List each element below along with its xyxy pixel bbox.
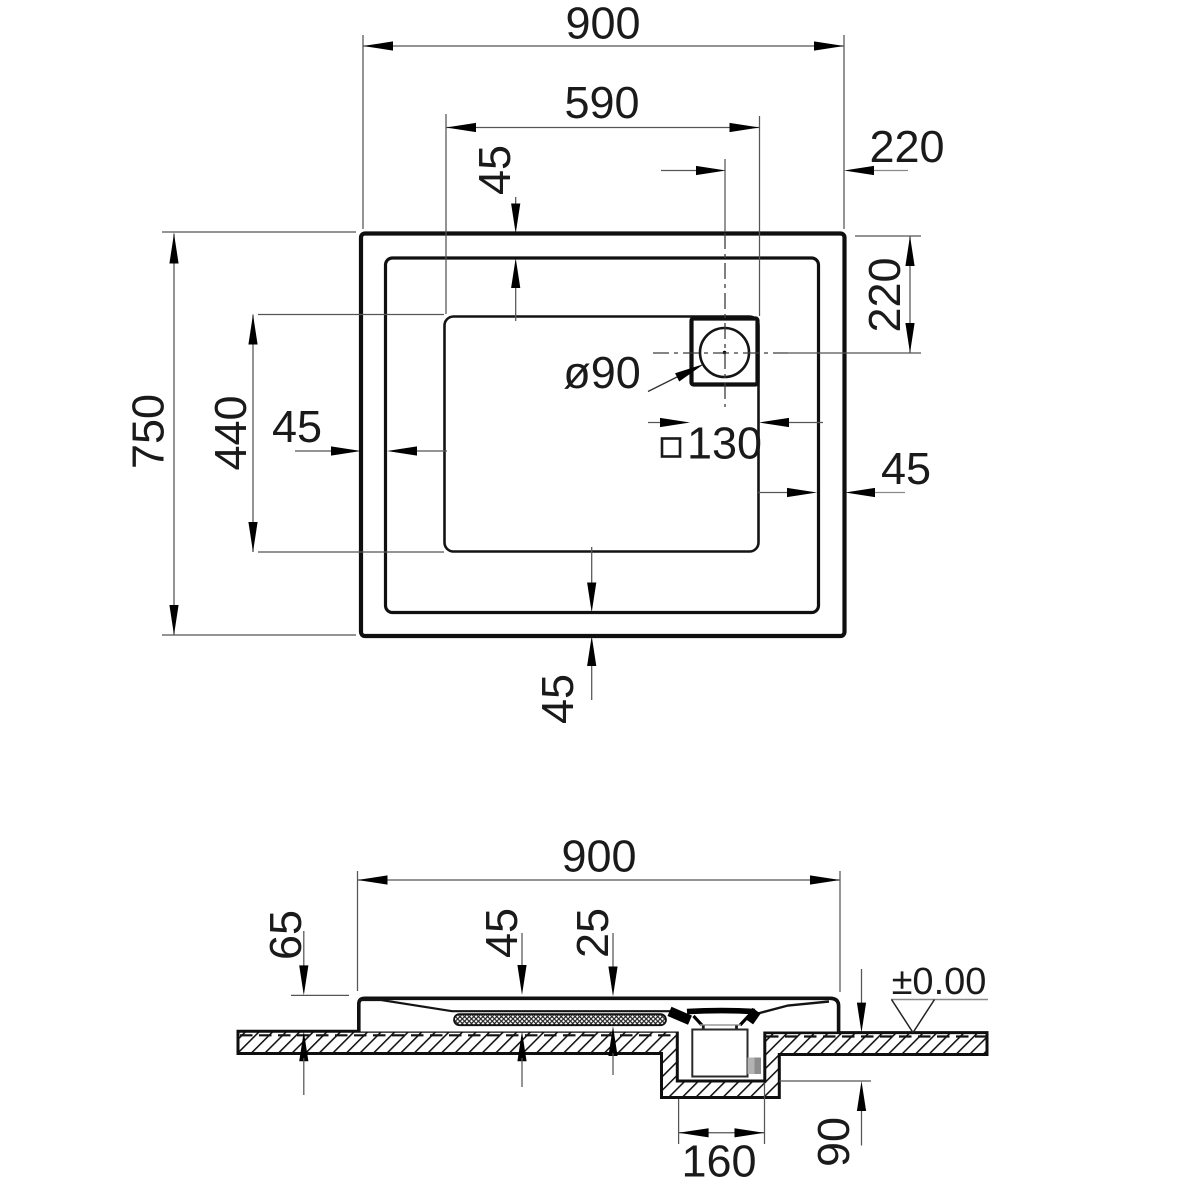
drain horizontal centerline: [653, 352, 788, 354]
svg-text:45: 45: [469, 145, 520, 195]
dim 45 (bottom rim) shaft and arrows: [591, 547, 593, 584]
anti-slip textured strip: [454, 1014, 666, 1025]
concrete floor and recess pit (hatched): [238, 1031, 987, 1097]
svg-text:90: 90: [808, 1117, 859, 1167]
second (rim inner) rectangle: [386, 258, 819, 613]
strainer stub left: [702, 1026, 705, 1032]
outer tray rectangle (plan): [361, 234, 845, 637]
svg-text:160: 160: [681, 1136, 756, 1187]
dim 45 (section) shaft and arrows: [521, 933, 523, 966]
dim 45 (top rim) shaft and arrows: [515, 197, 517, 206]
dim 590 dimension line: [446, 127, 760, 129]
svg-text:130: 130: [687, 418, 762, 469]
floor screed dashed line (left slab): [240, 1034, 676, 1036]
dim 440 extension lines: [258, 314, 444, 316]
tray outline (section): [359, 998, 839, 1031]
svg-text:590: 590: [564, 77, 639, 128]
svg-text:900: 900: [565, 0, 640, 49]
svg-text:25: 25: [567, 908, 618, 958]
drain vertical centerline: [724, 159, 726, 232]
svg-text:45: 45: [881, 443, 931, 494]
dim 750 dimension line: [173, 234, 175, 636]
svg-text:220: 220: [859, 257, 910, 332]
drain square: [692, 319, 758, 385]
svg-text:45: 45: [272, 401, 322, 452]
dim 440 dimension line: [252, 315, 254, 553]
dim square130 lines and arrows: [648, 422, 662, 424]
dim square130 square symbol: [662, 439, 680, 457]
level mark triangle: [892, 1000, 935, 1033]
drain cover side (left slope): [694, 1016, 703, 1025]
drain outlet stub (gray): [748, 1058, 755, 1075]
svg-text:220: 220: [869, 121, 944, 172]
svg-text:750: 750: [123, 394, 174, 469]
strainer stub right: [735, 1026, 738, 1032]
dim 900 (section) extension lines: [357, 871, 359, 991]
svg-text:ø90: ø90: [563, 347, 641, 398]
svg-text:±0.00: ±0.00: [892, 961, 987, 1003]
tray basin surface slope (right): [756, 1002, 829, 1015]
dim 45 (left rim) lines and arrows: [295, 450, 333, 452]
dim 220 (top right) line segments and arrows: [661, 170, 698, 172]
drain cover underside line: [700, 1024, 741, 1026]
dim 750 extension lines: [162, 231, 356, 233]
drain recess left wall (solid black wedge): [670, 1011, 691, 1020]
dim 160 dimension line: [679, 1132, 765, 1134]
dim 65 shaft, arrows, extension: [303, 931, 305, 966]
dim 900 (plan top) dimension line: [363, 45, 844, 47]
svg-text:45: 45: [532, 674, 583, 724]
drain center dot: [723, 351, 727, 355]
drain trap body: [692, 1030, 747, 1077]
leader line for diameter 90: [648, 375, 681, 392]
svg-text:900: 900: [561, 831, 636, 882]
dim 220 (right vertical) extension lines: [855, 235, 921, 237]
drain recess right wall (solid black wedge): [749, 1011, 757, 1022]
dim 90 shaft, arrows, extension: [861, 969, 863, 1004]
dim 590 extension lines: [445, 114, 447, 314]
drain circle: [700, 328, 749, 377]
floor screed dashed line (right slab): [766, 1035, 986, 1037]
svg-text:45: 45: [476, 908, 527, 958]
drain cover side (right slope): [740, 1016, 749, 1025]
tray basin surface line (left): [359, 1000, 671, 1011]
dim 900 (section) dimension line: [358, 879, 841, 881]
dim 220 (right vertical) dimension line: [909, 236, 911, 353]
level mark underline: [891, 999, 988, 1001]
dim 900 (plan top) extension lines: [362, 35, 364, 229]
drain cover plate: [687, 1011, 755, 1012]
dim 160 extension lines: [678, 1099, 680, 1144]
svg-text:440: 440: [205, 395, 256, 470]
basin inner rounded rectangle: [445, 317, 759, 552]
dim 45 (right rim) lines and arrows: [758, 492, 789, 494]
dim 25 shaft and arrows: [612, 933, 614, 967]
